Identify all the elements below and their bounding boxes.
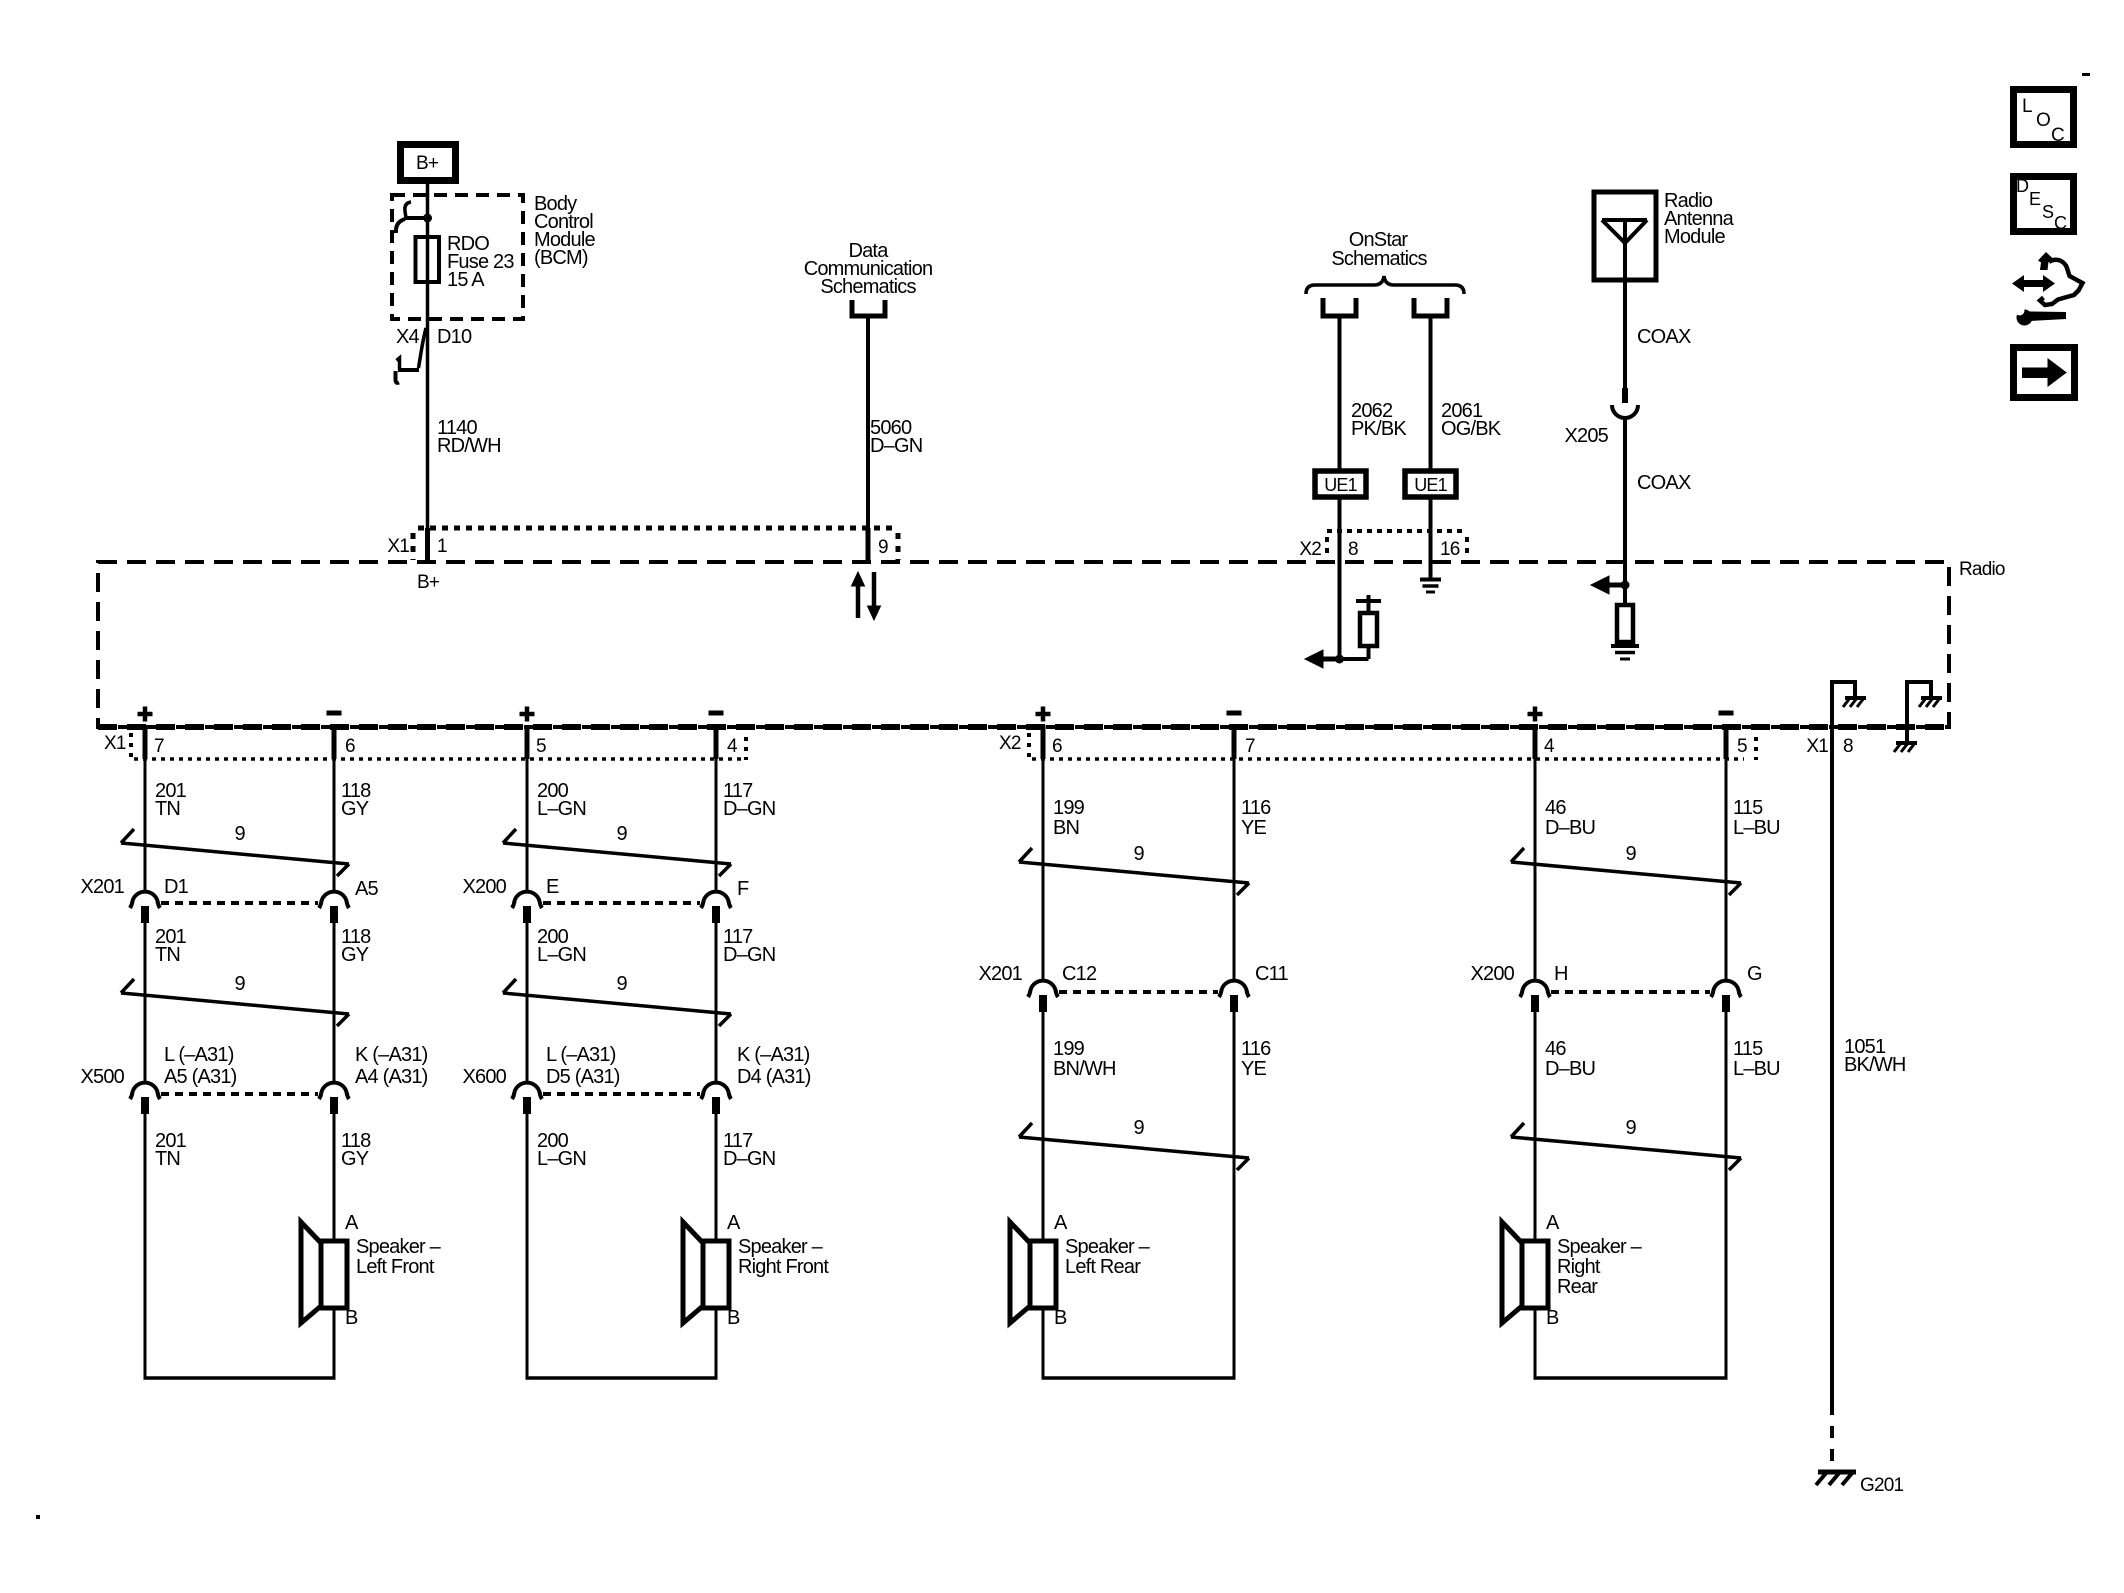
resistor OnStar [1340,603,1378,659]
svg-text:Rear: Rear [1557,1276,1598,1298]
label Radio Antenna Module [1664,190,1735,248]
svg-text:G201: G201 [1860,1475,1904,1496]
svg-text:9: 9 [617,973,628,995]
svg-text:X200: X200 [462,876,506,898]
wire minus upper right rear [1725,759,1728,982]
twisted pair symbol lower left front [121,973,349,1026]
svg-text:X205: X205 [1564,425,1608,447]
svg-text:A: A [1546,1212,1560,1234]
svg-text:Left Front: Left Front [356,1256,435,1278]
wire label 117 D–GN lower [723,1130,775,1170]
pin stub 9 [866,528,871,562]
pin numbers left rear [1052,736,1255,757]
svg-text:BK/WH: BK/WH [1844,1054,1906,1076]
label G201 [1860,1475,1904,1496]
wire label 201 TN middle [155,926,187,966]
twisted pair symbol upper right rear [1511,843,1741,895]
earth ground antenna [1611,642,1639,659]
svg-text:B: B [1054,1307,1067,1329]
svg-text:X500: X500 [80,1066,124,1088]
label COAX lower [1637,472,1691,494]
sidebar DESC box [2014,176,2074,233]
wire label 118 GY lower [341,1130,371,1170]
svg-text:7: 7 [154,736,164,757]
off-page bracket OnStar right [1414,298,1447,316]
polarity minus right rear [1719,711,1734,716]
wire label 201 TN upper [155,780,187,820]
wire minus middle left front [333,923,336,1084]
wire minus upper left front [333,759,336,892]
polarity plus left rear [1036,707,1051,722]
wire speaker B left front [333,1308,336,1378]
speaker right front [683,1222,729,1323]
pin stub plus left front [143,725,148,759]
svg-text:D–GN: D–GN [723,944,775,966]
svg-text:C: C [2051,125,2065,146]
polarity minus right front [709,711,724,716]
wire bottom loop left front [144,1376,336,1380]
wire plus lower left front [144,1114,147,1378]
svg-text:L (–A31): L (–A31) [164,1044,234,1066]
speaker left rear [1010,1222,1056,1323]
wire minus upper left rear [1233,759,1236,982]
svg-text:8: 8 [1348,539,1358,560]
svg-text:TN: TN [155,944,180,966]
sidebar service icon [2008,252,2083,326]
svg-text:Module: Module [1664,226,1725,248]
junction dot OnStar [1335,655,1344,664]
svg-text:TN: TN [155,798,180,820]
arrow to left antenna [1591,576,1626,594]
svg-text:A4 (A31): A4 (A31) [355,1066,428,1088]
sidebar LOC box [2014,90,2074,147]
twisted pair symbol lower left rear [1019,1117,1249,1170]
twisted pair symbol lower right front [503,973,731,1026]
svg-text:YE: YE [1241,1058,1267,1080]
svg-text:X1: X1 [104,733,126,754]
wire 2062 PK/BK upper [1338,316,1342,471]
svg-text:COAX: COAX [1637,326,1691,348]
svg-text:X1: X1 [1806,736,1828,757]
wire minus lower right rear [1725,1012,1728,1378]
polarity minus left rear [1227,711,1242,716]
pin numbers left front [154,736,355,757]
node label B+ [417,572,440,593]
svg-text:L: L [2022,96,2033,117]
label RDO Fuse 23 15 A [447,233,514,291]
wire minus lower left front [333,1114,336,1241]
wire plus middle left front [144,923,147,1084]
resistor antenna [1617,585,1633,642]
svg-text:9: 9 [235,823,246,845]
pin stub 1 [425,528,430,562]
brace OnStar [1306,276,1464,294]
pin label X4 / D10 [396,326,472,348]
arrow to left OnStar [1305,650,1340,668]
pin numbers right front [536,736,738,757]
svg-text:9: 9 [235,973,246,995]
wire label 200 L–GN lower [537,1130,586,1170]
svg-text:6: 6 [345,736,355,757]
wire bottom loop right rear [1534,1376,1728,1380]
svg-text:UE1: UE1 [1324,475,1357,495]
wire plus upper right front [526,759,529,892]
wire 5060 D-GN [866,316,870,528]
clip symbol inside BCM [396,202,427,233]
wire label 116 YE lower [1241,1038,1271,1080]
svg-text:UE1: UE1 [1414,475,1447,495]
svg-text:D5 (A31): D5 (A31) [546,1066,620,1088]
svg-text:D–GN: D–GN [723,1148,775,1170]
wire label 115 L–BU lower [1733,1038,1780,1080]
svg-text:L–BU: L–BU [1733,1058,1780,1080]
svg-text:C11: C11 [1255,963,1288,985]
label speaker right front [738,1236,829,1278]
svg-text:H: H [1554,963,1568,985]
wire label 2061 OG/BK [1441,400,1502,440]
svg-text:YE: YE [1241,817,1267,839]
connector X500 pins [80,1044,427,1114]
connector X200 pins H G [1470,963,1762,1012]
connector X200 pins E F [462,876,749,923]
wire minus lower left rear [1233,1012,1236,1378]
tick mark top right [2082,73,2090,76]
label Data Communication Schematics [804,240,933,298]
pin stub minus left front [332,725,337,759]
module Radio dashed box [98,562,1949,727]
wire speaker B right rear [1534,1308,1537,1378]
svg-text:9: 9 [878,537,888,558]
svg-text:D1: D1 [164,876,189,898]
off-page bracket OnStar left [1323,298,1356,316]
pin stub X2-8 [1338,497,1342,562]
svg-text:D–GN: D–GN [870,435,922,457]
svg-text:Speaker –: Speaker – [1557,1236,1643,1258]
svg-text:4: 4 [1544,736,1555,757]
wire label 46 D–BU lower [1545,1038,1595,1080]
svg-text:OG/BK: OG/BK [1441,418,1502,440]
svg-text:GY: GY [341,944,369,966]
svg-text:X201: X201 [80,876,124,898]
svg-text:6: 6 [1052,736,1062,757]
power symbol B+ box [401,145,456,181]
svg-text:X1: X1 [387,536,409,557]
wire COAX upper [1623,280,1627,388]
wire label 118 GY middle [341,926,371,966]
ground G201 [1816,1472,1856,1485]
svg-text:A: A [345,1212,359,1234]
fuse RDO Fuse 23 15 A [416,237,440,282]
svg-text:F: F [737,878,749,900]
wire speaker B right front [715,1308,718,1378]
connector X600 pins [462,1044,810,1114]
wire label 117 D–GN middle [723,926,775,966]
label speaker right rear [1557,1236,1643,1298]
svg-text:X2: X2 [999,733,1021,754]
polarity plus left front [138,707,153,722]
svg-text:PK/BK: PK/BK [1351,418,1407,440]
svg-text:D: D [2016,176,2029,196]
pin stub X2-16 [1429,497,1433,562]
wire B+ from box through fuse [426,184,430,528]
svg-text:A: A [727,1212,741,1234]
svg-text:Radio: Radio [1959,559,2005,580]
svg-text:Schematics: Schematics [1331,248,1427,270]
wire plus upper left front [144,759,147,892]
svg-text:X4: X4 [396,326,420,348]
module Radio Antenna box [1594,192,1656,280]
wire minus lower right front [715,1114,718,1241]
off-page bracket data comm [852,300,885,316]
speaker pins A B left rear [1054,1212,1068,1329]
svg-text:E: E [546,876,559,898]
svg-text:BN: BN [1053,817,1079,839]
pin stub plus right front [525,725,530,759]
wire label 46 D–BU upper [1545,797,1595,839]
svg-text:A5 (A31): A5 (A31) [164,1066,237,1088]
twisted pair symbol upper left front [121,823,349,876]
wire plus lower left rear [1042,1012,1045,1241]
svg-text:5: 5 [1737,736,1747,757]
connector X201 pins C12 C11 [978,963,1288,1012]
wire label 200 L–GN middle [537,926,586,966]
svg-text:D10: D10 [437,326,472,348]
svg-text:16: 16 [1440,539,1460,560]
svg-text:Right Front: Right Front [738,1256,829,1278]
svg-text:COAX: COAX [1637,472,1691,494]
wire label 1051 BK/WH [1844,1036,1906,1076]
clip symbol at X4 [396,328,427,383]
svg-text:9: 9 [1626,1117,1637,1139]
pin stub minus left rear [1232,725,1237,759]
svg-text:B+: B+ [416,153,439,174]
svg-text:199: 199 [1053,797,1085,819]
svg-text:X201: X201 [978,963,1022,985]
junction dot antenna [1621,581,1630,590]
svg-text:D4 (A31): D4 (A31) [737,1066,811,1088]
svg-text:L (–A31): L (–A31) [546,1044,616,1066]
junction dot in BCM [423,214,432,223]
speaker pins A B right front [727,1212,741,1329]
svg-text:X600: X600 [462,1066,506,1088]
svg-text:116: 116 [1241,797,1271,819]
svg-text:A: A [1054,1212,1068,1234]
svg-text:D–BU: D–BU [1545,817,1595,839]
speaker left front [301,1222,347,1323]
svg-text:9: 9 [1134,1117,1145,1139]
svg-text:9: 9 [1134,843,1145,865]
wire label 200 L–GN upper [537,780,586,820]
wire label 115 L–BU upper [1733,797,1780,839]
pin numbers right rear [1544,736,1747,757]
svg-text:8: 8 [1843,736,1853,757]
connector band X2 pins 8 and 16 [1299,531,1467,560]
svg-text:Speaker –: Speaker – [1065,1236,1151,1258]
svg-text:5: 5 [536,736,546,757]
wire plus lower right rear [1534,1012,1537,1241]
termination bar with plus [1356,595,1381,608]
polarity minus left front [327,711,342,716]
earth ground OnStar pin16 [1420,562,1441,592]
svg-text:O: O [2036,110,2051,131]
svg-text:46: 46 [1545,1038,1566,1060]
wire plus lower right front [526,1114,529,1378]
label speaker left rear [1065,1236,1151,1278]
svg-text:7: 7 [1245,736,1255,757]
pin stub plus left rear [1041,725,1046,759]
wire label 201 TN lower [155,1130,187,1170]
svg-text:G: G [1747,963,1762,985]
svg-text:Speaker –: Speaker – [738,1236,824,1258]
svg-text:K (–A31): K (–A31) [355,1044,428,1066]
speck bottom left [36,1515,40,1519]
svg-text:L–BU: L–BU [1733,817,1780,839]
polarity plus right rear [1528,707,1543,722]
svg-text:116: 116 [1241,1038,1271,1060]
wire plus middle right front [526,923,529,1084]
svg-text:(BCM): (BCM) [534,247,588,269]
svg-text:B+: B+ [417,572,440,593]
sidebar next arrow box [2014,348,2075,398]
connector band X2 speaker pins 6 7 4 5 [999,733,1756,760]
svg-text:C12: C12 [1062,963,1097,985]
option box UE1 right [1405,471,1456,497]
wire 1051 BK/WH [1830,725,1834,1469]
svg-text:Schematics: Schematics [820,276,916,298]
label speaker left front [356,1236,442,1278]
svg-text:9: 9 [617,823,628,845]
wire label 199 BN upper [1053,797,1085,839]
option box UE1 left [1315,471,1366,497]
connector X205 [1564,388,1638,447]
speaker pins A B right rear [1546,1212,1560,1329]
svg-text:B: B [1546,1307,1559,1329]
wire label 118 GY upper [341,780,371,820]
wire COAX lower [1623,419,1627,562]
antenna symbol [1602,220,1647,280]
twisted pair symbol upper left rear [1019,843,1249,895]
wire bottom loop right front [526,1376,718,1380]
wire plus upper left rear [1042,759,1045,982]
module BCM dashed box [392,195,523,319]
svg-text:X2: X2 [1299,539,1321,560]
svg-text:L–GN: L–GN [537,798,586,820]
svg-text:4: 4 [727,736,738,757]
svg-text:D–BU: D–BU [1545,1058,1595,1080]
wire label 5060 D-GN [870,417,922,457]
pin stub minus right front [714,725,719,759]
connector X201 pins D1 A5 [80,876,378,923]
svg-text:Left Rear: Left Rear [1065,1256,1141,1278]
connector band X1 speaker pins 7 6 5 4 [104,733,746,760]
svg-text:D–GN: D–GN [723,798,775,820]
svg-text:46: 46 [1545,797,1566,819]
svg-text:9: 9 [1626,843,1637,865]
wire bottom loop left rear [1042,1376,1236,1380]
svg-text:X200: X200 [1470,963,1514,985]
svg-text:15 A: 15 A [447,269,485,291]
connector band X1 pins 1 and 9 [387,528,898,560]
svg-text:C: C [2054,213,2067,233]
wire antenna below radio edge [1623,562,1627,585]
label OnStar Schematics [1331,229,1427,270]
svg-text:S: S [2042,202,2054,222]
hatch ground hook right upper [1919,698,1942,707]
svg-text:A5: A5 [355,878,379,900]
wire minus upper right front [715,759,718,892]
svg-text:B: B [727,1307,740,1329]
svg-text:TN: TN [155,1148,180,1170]
svg-text:L–GN: L–GN [537,1148,586,1170]
svg-text:L–GN: L–GN [537,944,586,966]
hatch ground hook right lower [1894,743,1917,752]
wire label 116 YE upper [1241,797,1271,839]
wire label 117 D–GN upper [723,780,775,820]
svg-text:E: E [2029,189,2041,209]
hatch ground hook left [1843,698,1866,707]
ground hook left (pin X1-8) [1832,682,1855,725]
label Radio [1959,559,2005,580]
pin stub plus right rear [1533,725,1538,759]
twisted pair symbol lower right rear [1511,1117,1741,1170]
svg-text:1: 1 [437,536,447,557]
svg-text:B: B [345,1307,358,1329]
speaker pins A B left front [345,1212,359,1329]
wire label 1140 RD/WH [437,417,501,457]
svg-text:Speaker –: Speaker – [356,1236,442,1258]
wire label 2062 PK/BK [1351,400,1407,440]
svg-text:GY: GY [341,798,369,820]
svg-text:BN/WH: BN/WH [1053,1058,1116,1080]
svg-text:115: 115 [1733,1038,1763,1060]
twisted pair symbol upper right front [503,823,731,876]
svg-text:RD/WH: RD/WH [437,435,501,457]
label COAX upper [1637,326,1691,348]
ground hook right [1907,682,1931,741]
speaker right rear [1502,1222,1548,1323]
serial data arrows [852,572,881,620]
svg-text:Right: Right [1557,1256,1601,1278]
wire 2062 below radio edge [1338,562,1342,659]
wire minus middle right front [715,923,718,1084]
svg-text:GY: GY [341,1148,369,1170]
label Body Control Module (BCM) [534,193,595,269]
wire plus upper right rear [1534,759,1537,982]
svg-text:199: 199 [1053,1038,1085,1060]
wire speaker B left rear [1042,1308,1045,1378]
svg-text:115: 115 [1733,797,1763,819]
pin stub minus right rear [1724,725,1729,759]
svg-text:K (–A31): K (–A31) [737,1044,810,1066]
polarity plus right front [520,707,535,722]
wire 2061 OG/BK upper [1429,316,1433,471]
pin label X1 8 [1806,736,1853,757]
wire label 199 BN/WH lower [1053,1038,1116,1080]
